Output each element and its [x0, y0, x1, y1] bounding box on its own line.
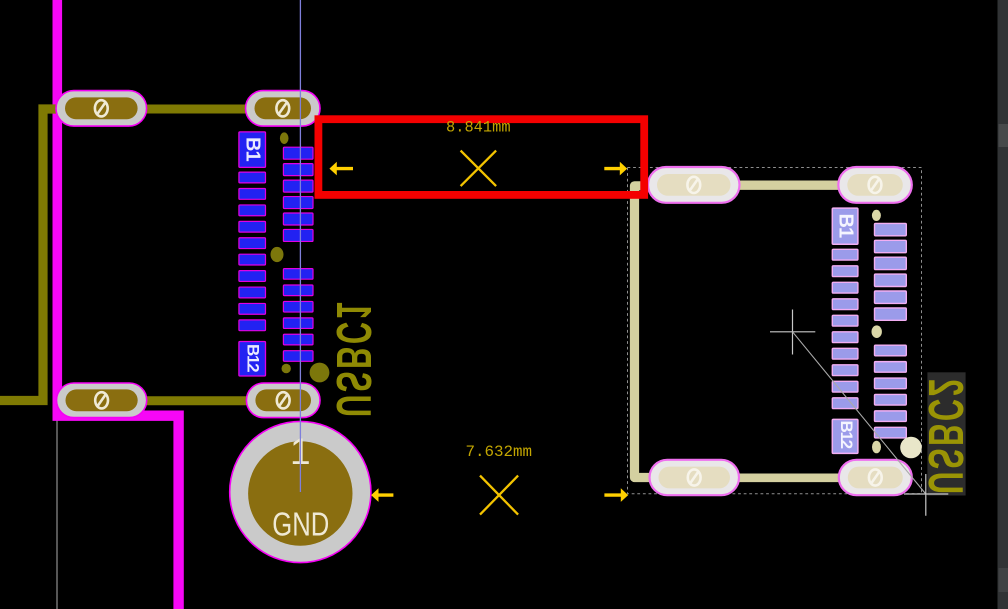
pad B1 (USBC2) — [832, 208, 858, 244]
scrollbar track — [998, 0, 1008, 609]
pad B12 (USBC1) — [239, 342, 266, 377]
pad 0 USBC1 row2 right — [246, 383, 320, 418]
arrow right (dim 2) — [604, 488, 628, 502]
arrow left (dim 2) — [371, 488, 393, 502]
via blob top (USBC2) — [872, 210, 881, 221]
wire olive trace between row1 pads — [145, 105, 248, 114]
pad 0 USBC2 bottom left — [650, 460, 740, 495]
olive dot (USBC1) — [310, 363, 330, 383]
X marker 1 — [461, 151, 497, 187]
via blob top (USBC1) — [280, 132, 289, 144]
wire magenta trace (corner + bottom) — [53, 416, 179, 609]
pads B2-B11 (USBC2 inner column) — [832, 249, 858, 408]
scrollbar thumb upper — [999, 124, 1008, 147]
X marker 2 — [480, 476, 518, 515]
corner cross (bounding box corner) — [904, 474, 948, 516]
svg-text:7.632mm: 7.632mm — [466, 443, 533, 461]
wire magenta trace (top net) — [52, 0, 62, 411]
selection bounding box USBC2 — [628, 168, 922, 494]
via blob bottom (USBC1) — [282, 364, 291, 374]
pads A-row (USBC1 outer column upper) — [283, 147, 313, 241]
scrollbar thumb lower — [999, 568, 1008, 592]
via blob middle (USBC2) — [872, 325, 882, 338]
drag diagonal line — [793, 332, 926, 494]
svg-text:B1: B1 — [835, 214, 857, 238]
via blob bottom (USBC2) — [872, 441, 881, 454]
reference text background USBC2 — [927, 372, 965, 495]
pad B1 (USBC1) — [239, 132, 266, 168]
via blob middle (USBC1) — [271, 247, 284, 262]
svg-text:USBC1: USBC1 — [326, 299, 381, 417]
wire khaki trace between USBC2 top pads — [738, 180, 840, 189]
pad 0 USBC2 top left — [648, 167, 740, 203]
pad 0 USBC2 bottom right — [839, 460, 912, 495]
pad 0 USBC1 row1 right — [246, 91, 321, 127]
pads B2-B11 (USBC1 inner column) — [239, 172, 266, 331]
pad 0 USBC1 row1 left — [56, 91, 147, 127]
svg-text:B1: B1 — [242, 137, 264, 161]
wire khaki trace between USBC2 bottom pads — [738, 473, 840, 482]
wire olive L-trace left of USBC1 — [0, 109, 62, 401]
pads A-row (USBC1 outer column lower) — [283, 269, 313, 362]
ratsnest line — [299, 0, 301, 492]
anchor cross (USBC2 origin) — [770, 310, 815, 355]
pad 1 GND (USBC1 through-hole) — [230, 421, 371, 562]
pads A-row (USBC2 outer column upper) — [875, 223, 907, 320]
svg-text:GND: GND — [272, 506, 329, 543]
svg-text:B12: B12 — [244, 344, 263, 372]
svg-text:B12: B12 — [837, 421, 856, 449]
svg-text:USBC2: USBC2 — [918, 376, 973, 494]
wire olive trace between row2 pads — [145, 396, 248, 405]
arrow left (dim 1) — [329, 162, 353, 176]
arrow right (dim 1) — [604, 162, 627, 176]
pad 0 USBC2 top right — [838, 167, 912, 203]
pad B12 (USBC2) — [832, 419, 858, 453]
gray boundary line — [56, 419, 58, 609]
svg-text:8.841mm: 8.841mm — [446, 119, 511, 137]
pads A-row (USBC2 outer column lower) — [875, 345, 907, 438]
pad 0 USBC1 row2 left — [57, 383, 147, 418]
cream dot (USBC2) — [900, 437, 922, 459]
DRC violation rectangle — [318, 119, 644, 195]
wire khaki left vertical trace USBC2 — [635, 186, 653, 478]
